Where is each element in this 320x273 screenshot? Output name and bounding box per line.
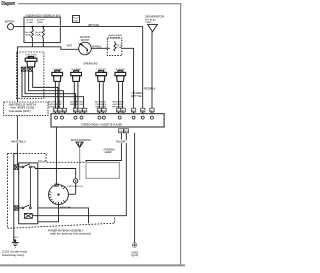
svg-text:(7.5A): (7.5A): [117, 46, 123, 49]
svg-text:G401: G401: [131, 252, 139, 254]
svg-text:WHT: WHT: [67, 44, 73, 47]
svg-text:RELAY: RELAY: [38, 160, 47, 163]
svg-text:LEAD: LEAD: [105, 151, 112, 154]
svg-text:FUSE BOX: FUSE BOX: [110, 38, 121, 40]
svg-text:Canada (EX): Canada (EX): [9, 110, 31, 113]
svg-text:ACC: ACC: [86, 52, 90, 55]
svg-text:LIMIT SWITCH: LIMIT SWITCH: [67, 186, 83, 188]
svg-text:(100A): (100A): [25, 33, 31, 36]
svg-text:(grd): (grd): [131, 254, 138, 257]
svg-text:STEREO RADIO / CASSETTE PLAYER: STEREO RADIO / CASSETTE PLAYER: [81, 122, 122, 126]
svg-text:(50A): (50A): [36, 33, 42, 36]
svg-text:BATTERY: BATTERY: [5, 21, 15, 24]
svg-text:SPEAKER: SPEAKER: [26, 56, 36, 59]
svg-text:(100A): (100A): [27, 21, 33, 24]
svg-text:Diagram: Diagram: [2, 1, 16, 7]
svg-text:WHT/BLU: WHT/BLU: [11, 141, 26, 144]
svg-text:fuse/relay box): fuse/relay box): [2, 254, 24, 257]
svg-text:RED/BLK: RED/BLK: [144, 87, 156, 90]
svg-text:UNDER-HOOD FUSE/RELAY BOX: UNDER-HOOD FUSE/RELAY BOX: [26, 15, 61, 18]
svg-text:R REAR: R REAR: [72, 68, 82, 71]
svg-text:(with the antenna fully retrac: (with the antenna fully retracted): [50, 232, 91, 235]
svg-text:L REAR: L REAR: [53, 68, 63, 71]
svg-text:BLK: BLK: [14, 237, 19, 239]
svg-text:(50A): (50A): [37, 21, 43, 24]
svg-text:YEL/WHT: YEL/WHT: [116, 141, 128, 144]
svg-text:10A: 10A: [73, 19, 78, 22]
svg-text:SWITCH: SWITCH: [81, 40, 90, 42]
svg-text:WHT/BLK: WHT/BLK: [92, 46, 102, 49]
svg-text:R FRONT: R FRONT: [116, 69, 126, 71]
svg-text:L FRONT: L FRONT: [97, 69, 107, 71]
svg-text:SPEAKERS: SPEAKERS: [83, 63, 98, 66]
svg-text:WHT/YEL: WHT/YEL: [131, 95, 143, 98]
svg-text:No.2: No.2: [73, 18, 79, 20]
svg-text:BRN/WHT BRN: BRN/WHT BRN: [70, 104, 84, 106]
svg-text:MOTOR: MOTOR: [61, 207, 72, 209]
svg-text:MAST ANTENNA: MAST ANTENNA: [71, 139, 91, 142]
svg-text:TIMES: TIMES: [145, 22, 152, 24]
svg-text:GENERATOR: GENERATOR: [145, 16, 164, 19]
svg-text:WHT/YEL: WHT/YEL: [88, 24, 100, 27]
